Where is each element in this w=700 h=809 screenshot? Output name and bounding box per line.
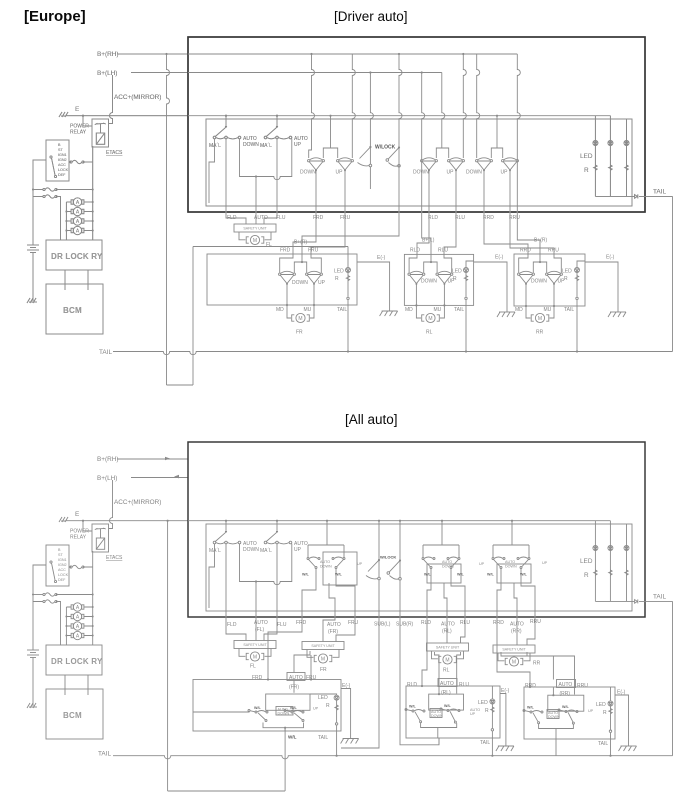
label FRU lower (348, 620, 359, 626)
LED D1 (593, 141, 598, 146)
label E(-) right (606, 255, 615, 261)
wire E(-) RR lower (615, 695, 629, 746)
label AUTO (FL) (254, 620, 268, 633)
label UP RR (501, 170, 509, 176)
label TAIL RL lower (480, 740, 490, 746)
label FR (296, 330, 303, 336)
label RLD at unit (410, 248, 420, 254)
wire RL MD MU (415, 284, 445, 318)
junction E to relay (82, 115, 92, 126)
label RLU under box (455, 215, 465, 221)
wire AUTO FL connector lower (255, 582, 257, 641)
label TAIL RL unit (454, 307, 464, 313)
wire block left down (33, 160, 46, 186)
label MD (276, 307, 284, 313)
wire FR unit feeds (280, 254, 322, 273)
label UP RL unit (448, 279, 456, 285)
header [Europe] (24, 8, 86, 25)
wire RLD connector drop (417, 171, 429, 255)
svg-text:RLD: RLD (421, 620, 431, 626)
FR unit amplifier UP (306, 271, 323, 285)
label E(-) mid (495, 255, 504, 261)
svg-text:RRU: RRU (548, 248, 559, 254)
label R FR lower (326, 703, 330, 709)
svg-text:MD: MD (405, 307, 413, 313)
wire RR lower switch bottom (539, 724, 574, 756)
junction dots B+(RH) (310, 53, 464, 55)
svg-text:FLU: FLU (277, 622, 287, 628)
label FL lower (250, 664, 256, 670)
RL lower switch left (405, 709, 425, 723)
svg-text:DOWN: DOWN (300, 170, 316, 176)
svg-text:FRU: FRU (308, 248, 319, 254)
label AUTO DOWN FR cluster (320, 560, 332, 569)
label AUTO (254, 215, 268, 221)
svg-text:B+(R): B+(R) (534, 238, 548, 244)
svg-text:RLU: RLU (459, 682, 469, 688)
use box common bottom (188, 442, 673, 617)
svg-text:RLD: RLD (410, 248, 420, 254)
wire FRU connector drop (311, 171, 345, 255)
svg-text:UP: UP (313, 707, 319, 711)
svg-text:LED: LED (478, 700, 488, 706)
ground E(-) RL (380, 311, 398, 316)
svg-text:AUTO: AUTO (441, 622, 455, 628)
junction dots on allauto box bottom (225, 616, 536, 618)
door unit RL box (404, 254, 473, 305)
label UP RR unit lower (588, 709, 594, 713)
svg-text:RLU: RLU (455, 215, 465, 221)
label R RL lower (485, 708, 489, 714)
fuse F2 (43, 188, 57, 191)
label W/L FR cluster (302, 573, 310, 577)
motor FL lower (246, 652, 264, 661)
label W/LOCK (375, 145, 396, 151)
use left column top (27, 51, 188, 334)
svg-text:LED: LED (334, 269, 344, 275)
svg-text:LED: LED (452, 269, 462, 275)
svg-text:UP: UP (501, 170, 509, 176)
label RRD lower (493, 620, 504, 626)
svg-text:DOWN: DOWN (278, 712, 290, 716)
label FPD (252, 675, 263, 681)
wire RLU connector drop (444, 171, 456, 255)
label LED RR lower (596, 702, 606, 708)
label RRU under box (509, 215, 520, 221)
window cluster RL (all auto) (422, 520, 465, 612)
svg-text:RLD: RLD (428, 215, 438, 221)
svg-text:SUB(R): SUB(R) (396, 622, 414, 628)
label SUB(L) (374, 622, 391, 628)
wire U loop bottom lower (168, 790, 286, 792)
label FRU under box (340, 215, 351, 221)
svg-text:SUB(L): SUB(L) (374, 622, 391, 628)
wire B+(L) feed RL (422, 73, 431, 255)
svg-text:LED: LED (318, 695, 328, 701)
label UP (336, 170, 344, 176)
FR lower switch left (248, 710, 268, 722)
ground FR lower (341, 739, 359, 744)
wire FLD connector lower (226, 544, 246, 641)
svg-text:DOWN: DOWN (413, 170, 429, 176)
wire FPD drop (267, 678, 269, 680)
svg-text:W/L: W/L (444, 704, 452, 708)
wire E rail driver (188, 115, 610, 117)
E antenna hatch (59, 112, 68, 117)
ignition switch block (46, 140, 69, 181)
svg-text:DOWN: DOWN (548, 715, 560, 719)
svg-text:FRU: FRU (348, 620, 359, 626)
svg-text:FRD: FRD (252, 675, 263, 681)
label MA'L (209, 143, 221, 149)
label DOWN RR (466, 170, 482, 176)
wire E line (66, 115, 188, 117)
svg-text:DOWN: DOWN (292, 280, 308, 286)
label W/L FR unit a (254, 706, 262, 710)
svg-text:W/L: W/L (457, 573, 465, 577)
label TAIL bottom left (99, 349, 112, 356)
label BCM (63, 306, 82, 315)
label W/L FR cluster b (335, 573, 343, 577)
svg-text:LED: LED (562, 269, 572, 275)
label FRD under box (313, 215, 324, 221)
wire FRU drop (323, 612, 355, 642)
label E(-) RR lower (617, 690, 626, 696)
wire SUB(R) (400, 612, 439, 745)
svg-text:TAIL: TAIL (98, 751, 111, 758)
relay DR LOCK RY (46, 240, 102, 270)
label DR LOCK RY (51, 252, 103, 261)
label E (75, 106, 79, 113)
ground RL lower (496, 746, 514, 751)
RL lower switch right (440, 708, 460, 723)
wire RR unit drops (501, 652, 575, 696)
wire FLU connector lower (264, 544, 277, 641)
wire switch logic box lower (209, 544, 292, 608)
window lock W/LOCK lower (366, 520, 401, 612)
svg-text:RRD: RRD (483, 215, 494, 221)
label AUTO UP (294, 136, 308, 148)
wire RL lower switch bottom (421, 723, 457, 745)
label DOWN RR unit (531, 279, 547, 285)
wire B+(RH) rail in box (188, 53, 517, 55)
svg-text:TAIL: TAIL (598, 741, 608, 747)
svg-text:(RL): (RL) (441, 690, 451, 696)
FR lower switch right (284, 710, 304, 722)
label TAIL RR lower (598, 741, 608, 747)
svg-text:MU: MU (434, 307, 442, 313)
label FLU lower (277, 622, 287, 628)
RR lower inner rect (548, 695, 584, 711)
wire W/L switch drop (284, 729, 286, 791)
label ACC+(MIRROR) (114, 94, 161, 101)
label B+(R) (294, 240, 308, 246)
label MU RL (434, 307, 442, 313)
label MD RR (515, 307, 523, 313)
wire RL lower LED chain (491, 686, 493, 757)
label UP FR unit (318, 280, 326, 286)
label TAIL right (653, 189, 666, 196)
label B+(L) (422, 238, 435, 244)
label FRD lower (296, 620, 307, 626)
svg-text:TAIL: TAIL (337, 307, 347, 313)
svg-text:FLD: FLD (227, 622, 237, 628)
wire RL unit drops (421, 652, 461, 695)
label W/L RL unit a (409, 705, 417, 709)
motor FL (246, 235, 264, 244)
gauge circle A3 (71, 217, 84, 225)
svg-text:R: R (335, 276, 339, 282)
resistor RR lower (609, 709, 612, 714)
door unit FR box (207, 254, 357, 305)
svg-text:DOWN: DOWN (505, 565, 517, 569)
label AUTO DOWN RL cluster (442, 560, 454, 569)
label UP RL cluster (479, 562, 485, 566)
motor FR (292, 313, 310, 322)
svg-text:W/L: W/L (288, 735, 297, 740)
wire RL LED chain (465, 261, 474, 353)
wire FR lower switch bottom (263, 723, 304, 732)
svg-text:E(-): E(-) (495, 255, 504, 261)
svg-text:W/L: W/L (527, 706, 535, 710)
label RR lower (533, 661, 541, 667)
wire B+(R) feed FR (302, 54, 402, 254)
safety unit FL (234, 224, 276, 240)
svg-text:RRD: RRD (525, 683, 536, 689)
resistor R3 (625, 165, 628, 170)
label LED FR lower (318, 695, 328, 701)
svg-text:AUTO: AUTO (254, 215, 268, 221)
label RRD at unit (520, 248, 531, 254)
header [Driver auto] (334, 9, 408, 24)
wire battery drop (32, 197, 34, 241)
label B+(RH) (97, 51, 118, 58)
label LED FR (334, 269, 344, 275)
resistor RL unit (464, 276, 467, 281)
RL lower inner rect (429, 694, 464, 710)
wire DR LOCK to BCM (65, 270, 88, 290)
label TAIL RR unit (564, 307, 574, 313)
resistor RL lower (491, 707, 494, 712)
arrow B+(RH) lower (165, 457, 170, 461)
door unit RR box (514, 254, 585, 306)
svg-text:RL: RL (426, 330, 433, 336)
label TAIL FR unit (337, 307, 347, 313)
svg-text:(FL): (FL) (255, 627, 265, 633)
header [All auto] (345, 412, 398, 427)
wire FR MD MU (286, 284, 315, 318)
label DOWN (300, 170, 316, 176)
svg-text:UP: UP (542, 561, 548, 565)
label RRU unit lower (577, 683, 588, 689)
wire ACC vertical (109, 75, 113, 124)
svg-text:MU: MU (544, 307, 552, 313)
resistor FR unit (346, 276, 349, 281)
svg-text:RLU: RLU (438, 248, 448, 254)
wire FR lower LED chain (310, 694, 338, 757)
svg-text:W/L: W/L (335, 573, 343, 577)
label UP FR unit lower (313, 707, 319, 711)
battery B1 (27, 240, 39, 257)
wire AUTO FR drop (294, 651, 310, 693)
svg-text:(RR): (RR) (511, 629, 522, 635)
svg-text:B+(R): B+(R) (294, 240, 308, 246)
motor FR lower (314, 654, 332, 663)
svg-text:RRD: RRD (493, 620, 504, 626)
label AUTO (FR) (327, 622, 341, 635)
label RLD unit lower (407, 682, 417, 688)
gauge circle A4 (71, 226, 84, 234)
label DOWN RL (413, 170, 429, 176)
svg-text:AUTO: AUTO (505, 560, 515, 564)
wire FR LED chain (347, 247, 349, 353)
svg-text:MU: MU (304, 307, 312, 313)
wire left B+ drop x166.5 (165, 53, 169, 385)
svg-text:FR: FR (320, 667, 327, 673)
LED FR unit (346, 268, 351, 273)
svg-text:FL: FL (266, 242, 272, 248)
svg-text:DOWN: DOWN (442, 565, 454, 569)
FR lower inner rect (266, 694, 310, 710)
label TAIL bottom lower (98, 751, 111, 758)
label LED RL (452, 269, 462, 275)
ground below battery (27, 298, 37, 303)
switch MA'L (up) (264, 125, 292, 138)
wire FRD connector lower (268, 612, 302, 680)
resistor R2 (609, 165, 612, 170)
label W/L RL unit b (444, 704, 452, 708)
label MU (304, 307, 312, 313)
motor RR (531, 313, 549, 322)
label AUTO (RR) (510, 622, 524, 635)
rear-left amplifier pair RL (421, 158, 465, 172)
svg-text:AUTO: AUTO (254, 620, 268, 626)
label B+(LH) (97, 70, 117, 77)
wire E(-) RL lower (500, 694, 506, 747)
label B+(R) RR (534, 238, 548, 244)
label AUTO DOWN RR unit (547, 710, 560, 720)
fuse F3 (43, 195, 57, 198)
gauge circle A1 (71, 198, 84, 206)
svg-text:TAIL: TAIL (564, 307, 574, 313)
resistor R1 (594, 165, 597, 170)
wire RR MD MU (525, 284, 555, 318)
label MU RR (544, 307, 552, 313)
junction E to switch2 (276, 115, 278, 117)
label RLU at unit (438, 248, 448, 254)
wire B+(RH) stub (117, 53, 188, 55)
RL unit amplifier UP (436, 271, 453, 285)
svg-text:AUTO: AUTO (442, 560, 452, 564)
ground RR lower (619, 746, 637, 751)
wire battery to ground (32, 257, 34, 301)
label R RL (453, 276, 457, 282)
svg-text:DOWN: DOWN (466, 170, 482, 176)
wire B+(R) feed RR (517, 54, 540, 254)
wire E(-) feed horizontal (193, 246, 348, 248)
svg-text:TAIL: TAIL (99, 349, 112, 356)
svg-text:DOWN: DOWN (531, 279, 547, 285)
svg-text:DOWN: DOWN (431, 714, 443, 718)
svg-text:(FR): (FR) (328, 629, 338, 635)
LED RR lower (608, 701, 613, 706)
RL unit amplifier DOWN (408, 271, 425, 285)
safety unit RL (427, 643, 469, 659)
svg-text:UP: UP (336, 170, 344, 176)
label RLU lower (460, 620, 470, 626)
resistor RR unit (575, 276, 578, 281)
wire E(-) FR lower (341, 689, 351, 739)
label W/L RL cluster b (457, 573, 465, 577)
svg-text:DOWN: DOWN (320, 565, 332, 569)
label RRU at unit (548, 248, 559, 254)
arrow B+(LH) lower (174, 475, 179, 479)
wire TAIL exit (639, 195, 673, 197)
svg-text:E(-): E(-) (377, 255, 386, 261)
label RRU lower (530, 619, 541, 625)
svg-text:R: R (485, 708, 489, 714)
wire B+(LH) stub (131, 72, 188, 74)
svg-text:UP: UP (318, 280, 326, 286)
RR lower switch left (523, 710, 543, 724)
use box common top (188, 37, 673, 212)
label E(-) RL lower (501, 688, 510, 694)
svg-text:RL: RL (443, 668, 450, 674)
svg-text:UP: UP (447, 170, 455, 176)
svg-text:R: R (564, 276, 568, 282)
motor RL (422, 313, 440, 322)
svg-text:[Driver auto]: [Driver auto] (334, 9, 408, 24)
label FRD at unit (280, 248, 291, 254)
door unit FR lower box (193, 680, 341, 732)
door unit RL lower box (406, 686, 500, 738)
wire block to relay (69, 161, 93, 163)
use left column bottom (27, 456, 188, 739)
wire RR lower LED chain (609, 687, 611, 757)
resistor FR lower (335, 705, 338, 710)
wire to switch2 pivot (276, 116, 278, 125)
label FLU (276, 215, 286, 221)
window lock switch W/LOCK (358, 73, 401, 190)
label W/L RR cluster (487, 573, 495, 577)
label E(-) left of RL (377, 255, 386, 261)
svg-text:FRD: FRD (313, 215, 324, 221)
wire RR pair bridge feed (491, 115, 502, 158)
label UP RR unit (558, 279, 566, 285)
svg-text:[Europe]: [Europe] (24, 8, 86, 25)
label W/L RR cluster b (520, 573, 528, 577)
label AUTO RL unit boxed (438, 679, 457, 697)
window cluster FR (all auto) (302, 520, 357, 612)
label W/L RL cluster (424, 573, 432, 577)
svg-text:R: R (603, 710, 607, 716)
svg-text:RR: RR (533, 661, 541, 667)
label R FR (335, 276, 339, 282)
safety unit FR lower (302, 642, 344, 658)
junction dots B+(LH) (369, 71, 423, 73)
wire E(-) mid (474, 262, 507, 312)
svg-text:RR: RR (536, 330, 544, 336)
gauge circle A2 (71, 207, 84, 215)
svg-text:W/L: W/L (254, 706, 262, 710)
svg-text:DOWN: DOWN (421, 279, 437, 285)
ground E(-) mid (497, 312, 515, 317)
wire TAIL bus lower (113, 756, 673, 759)
label W/LOCK lower (380, 555, 396, 560)
ignition lever (50, 156, 57, 178)
label RR (536, 330, 544, 336)
svg-text:W/LOCK: W/LOCK (380, 555, 396, 560)
